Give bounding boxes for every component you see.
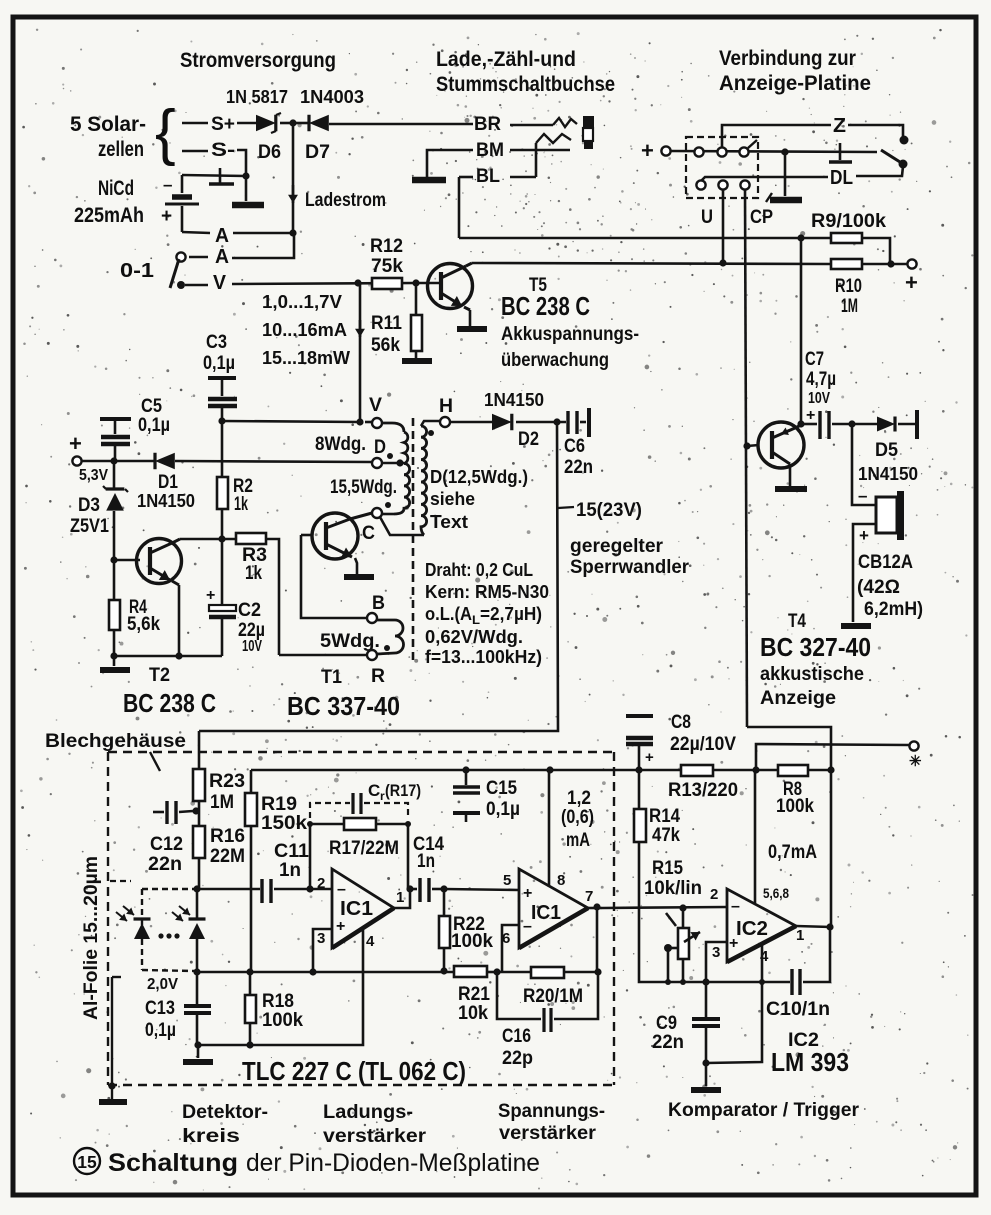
wire T2 emitter <box>178 585 181 656</box>
svg-text:Kern: RM5-N30: Kern: RM5-N30 <box>425 582 549 602</box>
jack plug <box>583 116 594 149</box>
svg-text:0,1µ: 0,1µ <box>138 415 170 436</box>
svg-text:C7: C7 <box>805 349 824 370</box>
svg-text:1n: 1n <box>279 860 301 881</box>
capacitor C5 <box>100 419 131 460</box>
wire rail inner top <box>251 769 756 772</box>
node R9 left <box>797 234 804 241</box>
label pin1 IC2 <box>796 927 804 944</box>
wire ground stem T2 <box>113 656 116 666</box>
wire A lower to switch <box>189 256 208 259</box>
node V vertical <box>356 418 363 425</box>
wire R23 top <box>198 731 201 769</box>
node C11 row left <box>193 885 200 892</box>
polarity dot primary <box>387 453 393 459</box>
label B <box>372 593 385 614</box>
svg-text:C: C <box>362 523 375 544</box>
svg-text:zellen: zellen <box>98 138 144 161</box>
label R20/1M <box>523 986 583 1007</box>
terminal plus right <box>907 259 916 268</box>
chassis mark <box>209 168 234 184</box>
resistor R18 <box>245 995 256 1023</box>
caption der Pin-Dioden-Messplatine <box>246 1149 540 1177</box>
label plus C2 <box>206 587 215 604</box>
svg-text:8: 8 <box>557 872 565 889</box>
capacitor C11 <box>262 879 271 903</box>
wire C10 right <box>803 927 830 982</box>
svg-text:T1: T1 <box>321 667 342 688</box>
label Blechgehaeuse <box>45 731 186 752</box>
node C14/R22 <box>440 885 447 892</box>
svg-text:15...18mW: 15...18mW <box>262 348 350 368</box>
resistor R19 <box>245 793 257 826</box>
label plus 5,3V <box>69 431 82 456</box>
node R15 top <box>679 904 686 911</box>
node C5/D3 <box>110 457 117 464</box>
resistor R14 <box>634 809 646 842</box>
label C13 <box>145 998 176 1041</box>
capacitor C8 <box>626 716 653 770</box>
svg-text:56k: 56k <box>371 335 400 356</box>
wire A lower corner <box>232 233 294 258</box>
label T5 <box>529 275 547 296</box>
svg-text:5,3V: 5,3V <box>79 467 108 484</box>
wire R11 top <box>415 283 418 315</box>
svg-text:überwachung: überwachung <box>501 350 609 371</box>
wire R19 top corner <box>250 770 253 793</box>
svg-text:verstärker: verstärker <box>323 1126 427 1147</box>
svg-text:IC2: IC2 <box>736 918 768 940</box>
label 75k <box>371 256 403 277</box>
svg-text:BR: BR <box>474 114 501 135</box>
label Ladungs-verstaerker <box>323 1102 427 1147</box>
wire connector mid ground <box>784 152 787 196</box>
svg-text:+: + <box>523 885 532 902</box>
wire speaker top <box>852 424 876 505</box>
svg-text:15: 15 <box>77 1152 97 1172</box>
svg-text:NiCd: NiCd <box>98 177 134 200</box>
speaker CB12A <box>876 491 904 540</box>
ground T2 row <box>100 667 130 673</box>
wire rail common <box>195 971 454 974</box>
op-amp IC1a <box>332 869 394 948</box>
wire rail IC2 <box>667 981 762 984</box>
wire Ladestrom vertical <box>292 123 295 233</box>
label plus IC1b <box>523 885 532 902</box>
resistor R23 <box>193 769 205 801</box>
wire C11 row <box>197 888 260 891</box>
wire pin3 stub <box>313 929 332 972</box>
node T4 base <box>743 442 750 449</box>
wire bottom row T2 <box>114 655 221 658</box>
svg-text:0,1µ: 0,1µ <box>203 353 235 374</box>
svg-text:15(23V): 15(23V) <box>576 500 642 521</box>
svg-text:3: 3 <box>712 944 720 961</box>
ground T4 <box>775 486 807 492</box>
label star <box>909 753 922 770</box>
wire R20 right <box>564 971 598 974</box>
svg-text:IC1: IC1 <box>531 902 561 924</box>
svg-text:C8: C8 <box>671 712 691 733</box>
wire C9 ground stem <box>705 1063 708 1086</box>
svg-text:1k: 1k <box>245 563 262 584</box>
terminal R <box>367 650 377 660</box>
dots between diodes <box>158 933 179 938</box>
svg-text:+: + <box>206 587 215 604</box>
label D7 <box>305 142 330 163</box>
current arrow V line <box>355 320 365 337</box>
capacitor C2 <box>209 539 236 656</box>
wire BM left corner <box>427 150 473 177</box>
wire pin5 <box>444 889 519 890</box>
svg-text:{: { <box>155 98 176 167</box>
wire BL vertical <box>535 143 538 177</box>
svg-text:150k: 150k <box>261 813 307 834</box>
wire plus to connector <box>671 151 877 152</box>
wire T1 base <box>301 534 313 537</box>
wire C6 right <box>580 421 586 424</box>
transformer core <box>412 418 415 662</box>
label D2 <box>518 429 539 450</box>
label IC2 inside <box>736 918 768 940</box>
wire C diagonal <box>380 517 424 535</box>
svg-text:1N 5817: 1N 5817 <box>226 87 288 107</box>
label C2 <box>238 600 265 655</box>
wire D hook <box>382 462 404 465</box>
label R4 <box>127 597 160 635</box>
node R12 left <box>354 279 361 286</box>
label D6 <box>258 142 281 163</box>
ground speaker <box>841 623 871 629</box>
label BL <box>476 166 500 187</box>
label C7 <box>805 349 836 424</box>
svg-text:Stummschaltbuchse: Stummschaltbuchse <box>436 73 615 96</box>
wire speaker bottom <box>853 524 876 622</box>
svg-text:CP: CP <box>750 207 773 228</box>
wire T1 emitter <box>355 558 357 574</box>
label C5 <box>138 396 170 436</box>
wire BL down <box>458 177 461 238</box>
key symbol <box>829 143 852 162</box>
wire T1 base down to B <box>301 535 367 618</box>
svg-text:R12: R12 <box>370 236 403 257</box>
svg-text:mA: mA <box>566 830 590 851</box>
svg-text:(42Ω: (42Ω <box>857 577 900 598</box>
wire V row <box>232 283 416 284</box>
svg-text:Z: Z <box>833 115 846 137</box>
wire A upper to node <box>233 232 293 235</box>
node feedback in <box>306 885 313 892</box>
label 2,0V <box>147 976 178 993</box>
wire C9 top <box>705 982 708 1017</box>
capacitor C16 loop <box>497 972 598 1032</box>
label C transformer <box>362 523 375 544</box>
svg-text:V: V <box>369 395 382 416</box>
node primary tap <box>396 459 403 466</box>
wire BL left <box>459 176 473 179</box>
svg-text:o.L.(A: o.L.(A <box>425 604 472 624</box>
label D(12,5Wdg.) <box>430 467 528 487</box>
node R9/R10 right <box>887 260 894 267</box>
transistor T4 <box>758 422 804 468</box>
label R22 <box>451 914 493 952</box>
wire sperrwandler vertical <box>199 422 558 731</box>
svg-text:100k: 100k <box>262 1010 303 1031</box>
wire Z right corner <box>848 125 903 137</box>
label C15 <box>486 778 520 820</box>
svg-text:R15: R15 <box>652 858 683 879</box>
svg-text:R16: R16 <box>210 826 245 847</box>
label Lade-Zaehl-und <box>436 48 576 71</box>
wire node to D7 <box>293 122 309 125</box>
svg-text:1M: 1M <box>841 296 858 317</box>
diode D1 <box>155 453 175 470</box>
switch DL blade <box>881 150 900 162</box>
label T1 <box>321 667 342 688</box>
label R2 <box>233 476 253 515</box>
node A/Ladestrom <box>289 229 296 236</box>
terminal V <box>372 418 382 428</box>
label C6 <box>564 436 593 478</box>
svg-text:D1: D1 <box>158 472 178 493</box>
shield box dashed <box>108 752 614 1085</box>
wire detector branch dashed <box>142 889 195 971</box>
label TLC227C <box>242 1056 466 1086</box>
label plus left terminal <box>641 138 654 163</box>
svg-text:BC 238 C: BC 238 C <box>501 291 590 321</box>
label battery minus <box>163 175 172 194</box>
svg-text:+: + <box>645 749 654 766</box>
label Komparator/Trigger <box>668 1100 860 1121</box>
label 1,2mA <box>561 788 594 851</box>
label 5Wdg <box>320 631 380 652</box>
resistor R21 <box>454 966 487 977</box>
label CB12A <box>858 552 913 573</box>
node pin4/C10 <box>759 979 765 985</box>
label R14 <box>649 806 680 846</box>
label H <box>439 396 453 417</box>
svg-text:0,1µ: 0,1µ <box>145 1020 176 1041</box>
svg-text:B: B <box>372 593 385 614</box>
svg-text:R10: R10 <box>835 276 862 297</box>
brace solar cells <box>155 98 176 167</box>
node rail pin3 <box>309 968 316 975</box>
terminal star <box>909 741 918 750</box>
polarity dot feedback <box>384 645 390 651</box>
node mid <box>781 148 788 155</box>
svg-text:R17/22M: R17/22M <box>329 838 399 859</box>
node C13 bottom <box>194 1041 201 1048</box>
label pin7 <box>585 888 593 905</box>
svg-text:Al-Folie 15...20µm: Al-Folie 15...20µm <box>81 856 102 1020</box>
svg-text:C: C <box>368 781 380 800</box>
wire D5 to bar <box>898 423 915 426</box>
label 1N4003 <box>300 87 364 107</box>
wire R14 top <box>638 770 641 809</box>
wire R14 bottom <box>639 842 667 982</box>
label R18 <box>262 991 303 1031</box>
svg-text:+: + <box>905 270 918 295</box>
node C6 <box>553 418 560 425</box>
label D5 <box>875 440 898 461</box>
label IC2 part <box>788 1030 819 1051</box>
label C3 <box>203 332 235 374</box>
wire IC2 out <box>796 926 831 927</box>
svg-text:+: + <box>161 206 172 227</box>
label pin3 IC2 <box>712 944 720 961</box>
svg-text:C15: C15 <box>486 778 517 799</box>
node R20 right <box>594 968 601 975</box>
svg-text:1: 1 <box>396 889 404 906</box>
svg-text:(0,6): (0,6) <box>561 807 594 828</box>
resistor R16 <box>193 826 205 858</box>
terminal bar C6 <box>587 408 591 437</box>
svg-text:Verbindung zur: Verbindung zur <box>719 47 856 70</box>
label T2 <box>149 665 170 686</box>
op-amp IC2 <box>727 889 796 962</box>
svg-text:C13: C13 <box>145 998 175 1019</box>
wire D2 to C6 <box>516 421 566 424</box>
node foil ground <box>108 1082 115 1089</box>
svg-text:der Pin-Dioden-Meßplatine: der Pin-Dioden-Meßplatine <box>246 1149 540 1177</box>
terminal H <box>440 417 450 427</box>
label R15 <box>644 858 702 899</box>
label C12 <box>148 834 183 875</box>
label NiCd 225mAh <box>74 177 144 227</box>
label ueberwachung <box>501 350 609 371</box>
capacitor C7 <box>820 411 829 439</box>
capacitor C15 <box>453 770 480 822</box>
resistor R17 <box>344 818 376 830</box>
wire C2 bottom corner <box>221 655 222 658</box>
label 1N4150 D1 <box>137 491 195 511</box>
photodiode D right <box>189 919 206 939</box>
svg-text:0,1µ: 0,1µ <box>486 799 520 820</box>
svg-text:D3: D3 <box>78 495 100 516</box>
light arrows right <box>172 906 190 921</box>
svg-text:LM 393: LM 393 <box>771 1047 849 1077</box>
node R23/R16/C12 <box>192 807 199 814</box>
wire battery minus row <box>182 175 246 176</box>
wire out feedback <box>596 907 599 972</box>
label 42ohm <box>857 577 900 598</box>
label Text <box>430 512 468 532</box>
node rail R8 right <box>827 766 834 773</box>
label geregelter <box>570 536 664 557</box>
svg-text:R20/1M: R20/1M <box>523 986 583 1007</box>
label Akkuspannungs- <box>501 324 639 345</box>
connector pin top2 <box>717 147 726 156</box>
svg-text:A: A <box>215 225 229 247</box>
label C16 <box>502 1026 533 1069</box>
ground T5 <box>457 326 487 332</box>
svg-text:R: R <box>371 666 385 687</box>
wire T5 emitter <box>469 310 472 327</box>
current arrow Ladestrom <box>288 185 298 203</box>
wire V hook <box>365 422 404 432</box>
diode D6 <box>256 113 281 133</box>
wire pin4 IC2 down <box>706 944 762 1063</box>
svg-text:6,2mH): 6,2mH) <box>864 599 923 620</box>
svg-text:Spannungs-: Spannungs- <box>498 1101 605 1122</box>
svg-text:5: 5 <box>503 872 511 889</box>
label Detektor-kreis <box>182 1102 268 1147</box>
ground C9 <box>691 1087 721 1093</box>
label BR <box>474 114 501 135</box>
svg-text:C9: C9 <box>656 1013 677 1034</box>
label plus speaker <box>859 526 869 545</box>
wire D3 top <box>113 461 116 489</box>
resistor R4 <box>109 600 120 630</box>
wire pins568 stem <box>754 770 757 903</box>
svg-text:Lade,-Zähl-und: Lade,-Zähl-und <box>436 48 576 71</box>
label Kern <box>425 582 549 602</box>
label 6,2mH <box>864 599 923 620</box>
svg-text:Text: Text <box>430 512 468 532</box>
svg-text:Anzeige-Platine: Anzeige-Platine <box>719 72 871 95</box>
svg-text:Ladungs-: Ladungs- <box>323 1102 413 1123</box>
label pins 5,6,8 <box>763 885 789 901</box>
wire node to D5 <box>852 423 877 426</box>
node rail C13 <box>193 968 200 975</box>
wire IC1a out <box>394 889 410 908</box>
svg-text:S-: S- <box>211 140 235 161</box>
capacitor C14 <box>410 878 444 902</box>
resistor R8 <box>778 765 808 776</box>
label R19 <box>261 794 307 834</box>
connector pin bot1 <box>696 180 705 189</box>
node pin6/R20 <box>493 968 500 975</box>
label 10...16mA <box>262 320 347 340</box>
label R8 <box>776 779 814 817</box>
jack contact BM <box>536 134 571 143</box>
svg-text:1n: 1n <box>417 851 435 872</box>
svg-text:225mAh: 225mAh <box>74 204 144 227</box>
svg-text:Akkuspannungs-: Akkuspannungs- <box>501 324 639 345</box>
svg-text:BC 327-40: BC 327-40 <box>760 632 871 662</box>
connector box dashed <box>686 137 758 198</box>
svg-text:1N4150: 1N4150 <box>484 390 544 410</box>
node S- ground <box>242 172 249 179</box>
capacitor C6 <box>568 411 577 434</box>
wire Z <box>722 125 831 147</box>
polarity dot secondary <box>428 430 434 436</box>
diode D5 <box>877 417 895 432</box>
connector pin top3 <box>739 140 757 157</box>
svg-text:D6: D6 <box>258 142 281 163</box>
svg-text:22n: 22n <box>564 457 593 478</box>
svg-text:Stromversorgung: Stromversorgung <box>180 49 336 72</box>
wire S+ to D6 <box>237 122 256 125</box>
label S- <box>211 140 235 161</box>
winding secondary <box>421 426 427 535</box>
trimmer R15 <box>666 913 700 959</box>
svg-text:BC 238 C: BC 238 C <box>123 688 216 718</box>
label IC1a <box>340 898 373 920</box>
svg-text:1k: 1k <box>234 494 248 515</box>
svg-text:8Wdg.: 8Wdg. <box>315 434 366 455</box>
wire collector to C7 <box>801 423 817 426</box>
svg-text:f=13...100kHz): f=13...100kHz) <box>425 647 542 667</box>
label V transformer <box>369 395 382 416</box>
wire D1 to transformer D <box>175 461 372 462</box>
wire R17 row right <box>376 823 408 826</box>
transistor T2 <box>137 539 182 586</box>
node R4 bottom <box>110 652 117 659</box>
node rail wiper <box>665 979 671 985</box>
wire C3 node to V vertical <box>222 421 360 422</box>
svg-text:D2: D2 <box>518 429 539 450</box>
